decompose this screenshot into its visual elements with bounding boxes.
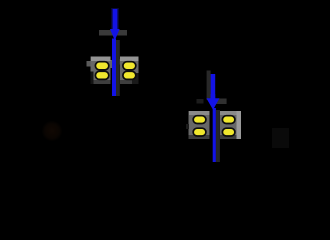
wire W1 lower shaft <box>112 39 116 97</box>
electron pair P1b (upper junction, left bottom oval) <box>95 71 108 79</box>
wire W1 shaft dark fringe <box>112 9 119 32</box>
junction J1 inner ledge right (gray patch next to wire) <box>116 59 120 65</box>
crossbar X2 left segment (dark tick) <box>197 99 204 104</box>
electron pair P2a (lower junction, left top oval) <box>193 116 206 124</box>
wire W2 upper shaft (current arrow, lower junction) <box>211 74 216 100</box>
junction J1 barrier electrode right (gray block) <box>120 57 139 85</box>
electron pair P1a (upper junction, left top oval) <box>95 62 108 70</box>
node B (very faint dark patch, lower right) <box>272 128 289 148</box>
arrowhead A2 (lower junction, pointing down) <box>206 98 219 110</box>
node A (faint dark red sphere, lower left) <box>42 121 63 142</box>
wire W1 upper shaft (current arrow, upper junction) <box>113 9 118 32</box>
electron pair P2b (lower junction, left bottom oval) <box>193 128 206 136</box>
junction J2 barrier electrode right (gray block) <box>220 111 241 139</box>
electron pair P2d (lower junction, right bottom oval) <box>222 128 235 136</box>
junction J1 barrier electrode left (gray block) <box>87 57 111 85</box>
junction J1 inner ledge left (gray patch next to wire) <box>111 60 113 68</box>
wire W2 lower shaft <box>213 108 216 162</box>
electron pair P2c (lower junction, right top oval) <box>222 116 235 124</box>
wire W1 lower halo <box>116 40 120 96</box>
junction J2 barrier electrode left (gray block) <box>186 111 210 139</box>
crossbar X2 right segment (dark tick) <box>216 99 227 105</box>
wire W2 upper halo (left side) <box>207 71 211 101</box>
arrowhead A1 (upper junction, pointing down) <box>110 29 120 40</box>
wire W2 lower halo (right side) <box>216 110 220 162</box>
electron pair P1c (upper junction, right top oval) <box>123 62 136 70</box>
crossbar X1 (dark tick through upper arrowhead) <box>99 30 127 36</box>
electron pair P1d (upper junction, right bottom oval) <box>123 71 136 79</box>
